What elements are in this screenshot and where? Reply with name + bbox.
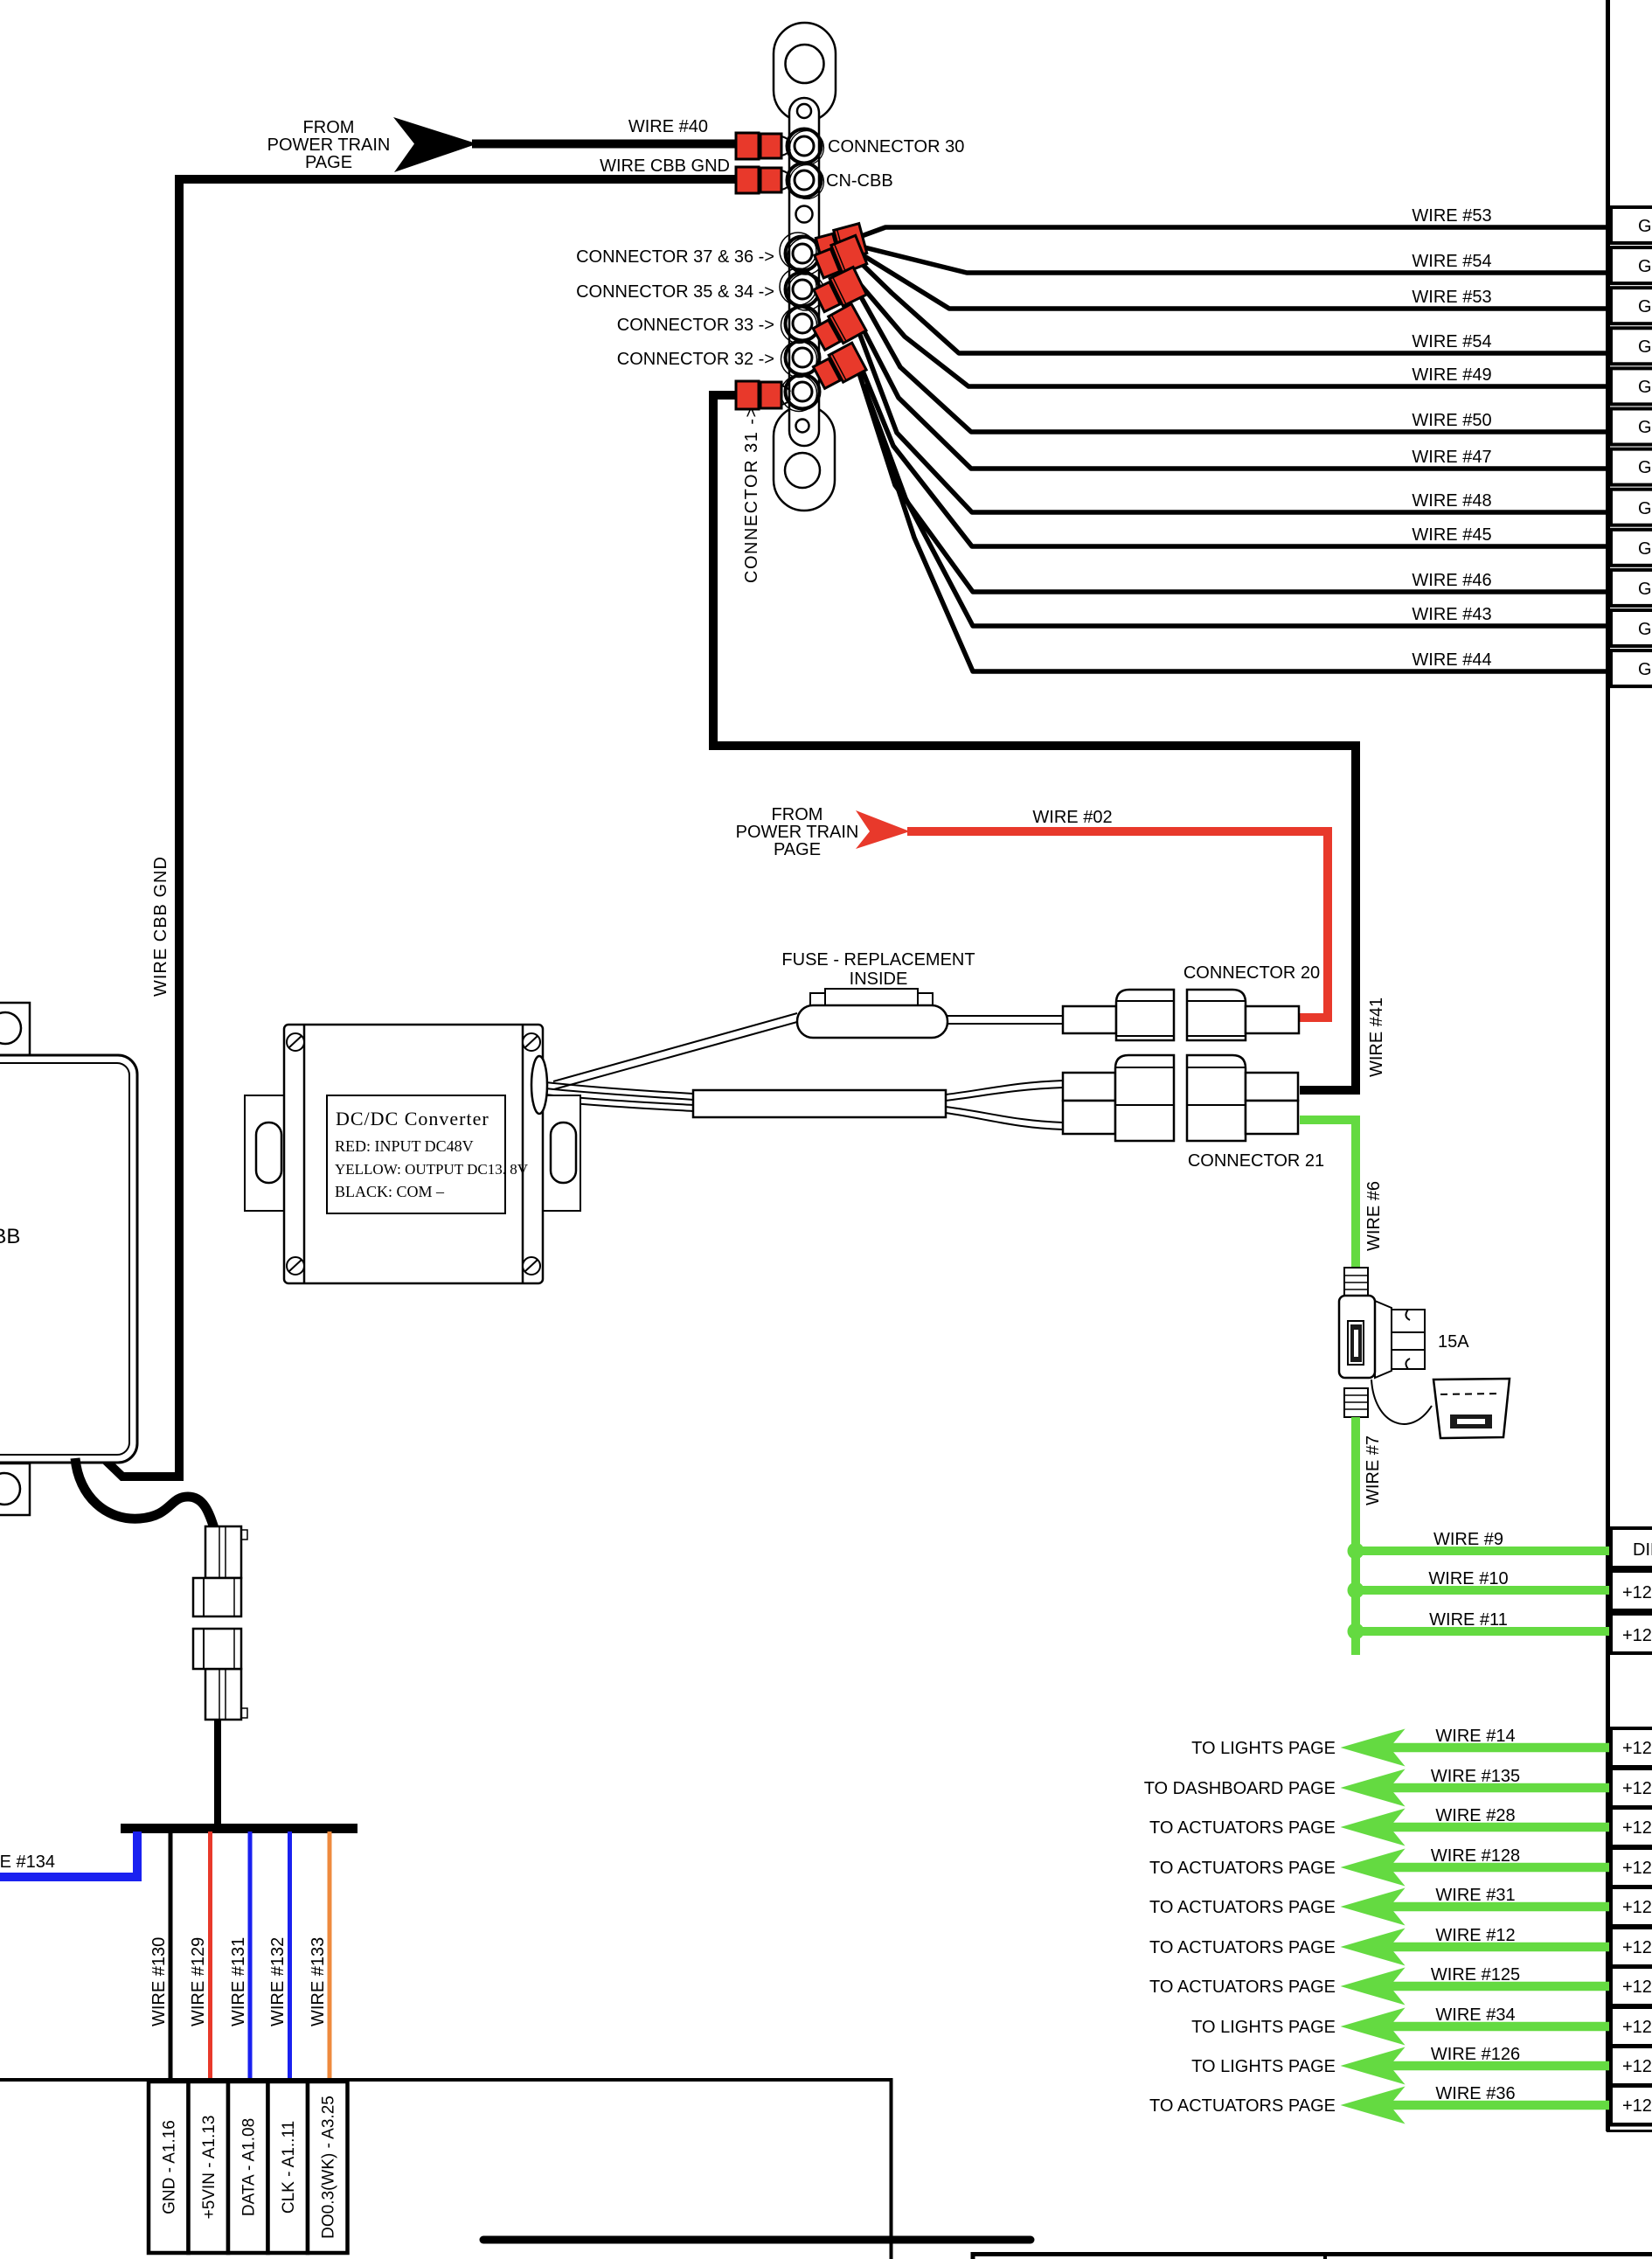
svg-text:WIRE #128: WIRE #128	[1431, 1846, 1520, 1866]
svg-text:CONNECTOR 30: CONNECTOR 30	[828, 137, 964, 156]
right component column line	[1606, 0, 1610, 2131]
pin boxes for the 10 green wires	[1611, 1728, 1652, 2124]
svg-text:FROM: FROM	[303, 118, 355, 137]
svg-text:GN: GN	[1638, 418, 1652, 437]
svg-text:WIRE #6: WIRE #6	[1364, 1181, 1384, 1251]
fuse holder cap tether	[1371, 1380, 1432, 1424]
svg-text:CN-CBB: CN-CBB	[826, 171, 893, 191]
svg-text:WIRE #46: WIRE #46	[1412, 571, 1491, 590]
svg-text:TO DASHBOARD PAGE: TO DASHBOARD PAGE	[1144, 1779, 1336, 1798]
component box (bottom right, partially visible)	[973, 2255, 1652, 2259]
fuse holder F1 15A	[1339, 1268, 1425, 1378]
wire WIRE #6 (green)	[1300, 1120, 1356, 1269]
wire WIRE #126	[1191, 2045, 1610, 2085]
svg-text:+12V: +12V	[1622, 1938, 1652, 1957]
svg-text:WIRE #53: WIRE #53	[1412, 288, 1491, 307]
svg-text:CLK - A1..11: CLK - A1..11	[280, 2121, 298, 2214]
off-page arrow (black, from power train)	[393, 117, 477, 172]
wire WIRE #135	[1144, 1767, 1610, 1807]
svg-text:WIRE #130: WIRE #130	[149, 1937, 169, 2026]
wires from busbar to GND boxes (12 wires)	[858, 227, 1610, 671]
svg-text:GN: GN	[1638, 337, 1652, 357]
wire WIRE #54	[861, 247, 1610, 273]
svg-text:GN: GN	[1638, 499, 1652, 518]
svg-text:+5VIN - A1.13: +5VIN - A1.13	[200, 2116, 219, 2220]
svg-text:GN: GN	[1638, 620, 1652, 639]
svg-text:TO ACTUATORS PAGE: TO ACTUATORS PAGE	[1149, 2096, 1336, 2116]
svg-text:+12V: +12V	[1622, 1977, 1652, 1997]
wire WIRE #44	[867, 395, 1610, 671]
svg-text:PAGE: PAGE	[774, 840, 821, 859]
wire WIRE #02	[907, 831, 1328, 1018]
svg-text:+12V: +12V	[1622, 2018, 1652, 2037]
fuse (inline, replacement inside)	[797, 989, 947, 1038]
wire WIRE #50	[859, 294, 1610, 432]
svg-text:GN: GN	[1638, 217, 1652, 236]
12 GND pin boxes on right component	[1611, 207, 1652, 686]
svg-text:WIRE #54: WIRE #54	[1412, 332, 1491, 351]
svg-text:+12V: +12V	[1622, 1898, 1652, 1917]
wire CONNECTOR 31 to WIRE #41 routing	[713, 395, 1356, 1090]
svg-text:TO ACTUATORS PAGE: TO ACTUATORS PAGE	[1149, 1898, 1336, 1917]
wire fuse to connector 20 pin	[947, 1016, 1063, 1024]
svg-text:INSIDE: INSIDE	[850, 970, 908, 989]
svg-text:WIRE CBB GND: WIRE CBB GND	[600, 156, 730, 176]
bus line (bottom, thin)	[0, 2080, 892, 2259]
svg-text:CBB: CBB	[0, 1225, 20, 1248]
ring terminal CONNECTOR 37 & 36	[780, 233, 824, 275]
wire WIRE #133 (orange)	[328, 1832, 332, 2082]
svg-text:WIRE #41: WIRE #41	[1367, 997, 1386, 1077]
svg-text:BLACK: COM –: BLACK: COM –	[335, 1183, 445, 1200]
ring terminal CN-CBB	[788, 163, 824, 199]
wire WIRE #31	[1149, 1886, 1610, 1926]
svg-text:15A: 15A	[1438, 1332, 1469, 1352]
svg-text:WIRE #31: WIRE #31	[1435, 1886, 1515, 1905]
wire WIRE #49	[859, 283, 1610, 386]
svg-text:YELLOW: OUTPUT DC13. 8V: YELLOW: OUTPUT DC13. 8V	[335, 1161, 529, 1178]
svg-text:GN: GN	[1638, 539, 1652, 559]
svg-text:WIRE #48: WIRE #48	[1412, 491, 1491, 511]
fuse holder cap	[1433, 1379, 1510, 1438]
svg-text:GN: GN	[1638, 458, 1652, 477]
wire inline connector to junction bar	[214, 1719, 221, 1824]
svg-text:WIRE #53: WIRE #53	[1412, 206, 1491, 226]
wire WIRE #134 (blue)	[0, 1832, 137, 1877]
svg-text:CONNECTOR 32 ->: CONNECTOR 32 ->	[617, 350, 774, 369]
component CBB (left, partially visible)	[0, 1003, 137, 1515]
crimp terminal on WIRE CBB GND	[736, 167, 790, 193]
connector 20	[1063, 990, 1299, 1040]
wire WIRE #14	[1191, 1727, 1610, 1767]
svg-text:WIRE CBB GND: WIRE CBB GND	[151, 856, 170, 997]
svg-text:CONNECTOR 31 ->: CONNECTOR 31 ->	[742, 406, 761, 583]
svg-text:WIRE #134: WIRE #134	[0, 1852, 55, 1872]
svg-text:+12V: +12V	[1622, 1626, 1652, 1645]
svg-text:WIRE #54: WIRE #54	[1412, 252, 1491, 271]
svg-text:+12V: +12V	[1622, 1779, 1652, 1798]
svg-text:DIM: DIM	[1633, 1540, 1652, 1560]
svg-text:TO LIGHTS PAGE: TO LIGHTS PAGE	[1191, 2018, 1336, 2037]
svg-text:WIRE #02: WIRE #02	[1032, 808, 1112, 827]
svg-text:WIRE #49: WIRE #49	[1412, 365, 1491, 385]
wire WIRE #10 (green)	[1356, 1586, 1610, 1595]
labels for the 12 wires	[1412, 206, 1491, 670]
wire WIRE #46	[858, 371, 1610, 592]
wire WIRE #129 (red)	[208, 1832, 212, 2082]
junction bar (splice)	[121, 1824, 357, 1833]
wire WIRE #48	[858, 330, 1610, 512]
svg-text:TO LIGHTS PAGE: TO LIGHTS PAGE	[1191, 1739, 1336, 1758]
svg-text:WIRE #10: WIRE #10	[1428, 1569, 1508, 1588]
svg-text:CONNECTOR 35 & 34 ->: CONNECTOR 35 & 34 ->	[576, 282, 774, 302]
wire WIRE #53 (b)	[860, 254, 1610, 309]
svg-text:RED: INPUT DC48V: RED: INPUT DC48V	[335, 1137, 474, 1155]
svg-text:WIRE #126: WIRE #126	[1431, 2045, 1520, 2064]
ring terminal CONNECTOR 35 & 34	[780, 268, 824, 310]
crimp terminal on WIRE #40	[736, 133, 790, 159]
wire WIRE #45	[858, 360, 1610, 546]
busbar (ground bus)	[774, 23, 836, 511]
terminal box GND - A1.16	[149, 2082, 348, 2253]
off-page arrow (red, from power train)	[856, 810, 910, 849]
svg-text:POWER TRAIN: POWER TRAIN	[736, 823, 859, 842]
svg-text:WIRE #14: WIRE #14	[1435, 1727, 1515, 1746]
svg-text:+12V: +12V	[1622, 1739, 1652, 1758]
junction (green dot)	[1348, 1623, 1364, 1640]
wire WIRE #12	[1149, 1926, 1610, 1966]
svg-text:GN: GN	[1638, 297, 1652, 316]
svg-text:WIRE #7: WIRE #7	[1364, 1435, 1383, 1505]
svg-text:CONNECTOR 21: CONNECTOR 21	[1188, 1151, 1324, 1171]
inline connector (CBB branch) top half	[193, 1526, 247, 1616]
svg-text:WIRE #12: WIRE #12	[1435, 1926, 1515, 1945]
svg-text:WIRE #50: WIRE #50	[1412, 411, 1491, 430]
wire WIRE #47	[858, 320, 1610, 469]
ring terminal CONNECTOR 30	[788, 129, 824, 165]
ring terminal CONNECTOR 32	[781, 341, 820, 378]
wire WIRE #28	[1149, 1806, 1610, 1846]
wire WIRE #34	[1191, 2005, 1610, 2046]
wire CBB harness to inline connector	[75, 1458, 214, 1528]
svg-text:TO ACTUATORS PAGE: TO ACTUATORS PAGE	[1149, 1818, 1336, 1838]
wire WIRE #125	[1149, 1965, 1610, 2005]
wire WIRE #128	[1149, 1846, 1610, 1887]
crimp terminal CONNECTOR 31	[736, 381, 790, 409]
wire WIRE #132 (blue)	[288, 1832, 292, 2082]
crimp terminal (angled, connector 37)	[815, 224, 866, 265]
svg-text:WIRE #45: WIRE #45	[1412, 525, 1491, 545]
ring terminal CONNECTOR 33	[781, 307, 820, 344]
svg-text:WIRE #11: WIRE #11	[1429, 1610, 1508, 1630]
inline connector (CBB branch) bottom half	[193, 1629, 247, 1720]
svg-text:CONNECTOR 20: CONNECTOR 20	[1183, 963, 1320, 983]
svg-text:WIRE #133: WIRE #133	[309, 1937, 328, 2026]
svg-text:CONNECTOR 33 ->: CONNECTOR 33 ->	[617, 316, 774, 335]
wire sheath (bundle)	[693, 1090, 946, 1117]
junction (green dot)	[1348, 1543, 1364, 1560]
svg-text:WIRE #132: WIRE #132	[268, 1937, 288, 2026]
svg-text:WIRE #9: WIRE #9	[1433, 1530, 1503, 1549]
label FUSE - REPLACEMENT INSIDE	[781, 950, 975, 989]
wire WIRE #36	[1149, 2084, 1610, 2124]
crimp terminal (angled, connector 36)	[813, 235, 866, 281]
svg-text:WIRE #125: WIRE #125	[1431, 1965, 1520, 1984]
svg-text:+12V: +12V	[1622, 2057, 1652, 2076]
svg-text:TO ACTUATORS PAGE: TO ACTUATORS PAGE	[1149, 1977, 1336, 1997]
wire WIRE #54 (b)	[860, 262, 1610, 353]
svg-text:WIRE #47: WIRE #47	[1412, 448, 1491, 467]
crimp terminal (angled, connector 32)	[812, 343, 866, 391]
svg-text:WIRE #44: WIRE #44	[1412, 650, 1491, 670]
node FROM POWER TRAIN PAGE (red feed label)	[736, 805, 859, 859]
svg-text:TO ACTUATORS PAGE: TO ACTUATORS PAGE	[1149, 1938, 1336, 1957]
node FROM POWER TRAIN PAGE (top label)	[267, 118, 391, 172]
svg-text:DO0.3(WK) - A3.25: DO0.3(WK) - A3.25	[320, 2096, 338, 2239]
svg-text:POWER TRAIN: POWER TRAIN	[267, 136, 391, 155]
right component bottom border	[1610, 2123, 1652, 2127]
svg-text:+12V: +12V	[1622, 1583, 1652, 1602]
svg-text:FROM: FROM	[772, 805, 823, 824]
svg-text:GN: GN	[1638, 257, 1652, 276]
wire WIRE #53	[859, 227, 1610, 237]
wire WIRE #40	[472, 140, 736, 149]
ring terminal CONNECTOR 31	[781, 375, 820, 412]
svg-text:CONNECTOR 37 & 36 ->: CONNECTOR 37 & 36 ->	[576, 247, 774, 267]
svg-text:WIRE #43: WIRE #43	[1412, 605, 1491, 624]
svg-text:WIRE #131: WIRE #131	[229, 1937, 248, 2026]
svg-text:WIRE #34: WIRE #34	[1435, 2005, 1515, 2025]
wire WIRE #11 (green)	[1356, 1627, 1610, 1636]
bus line (bottom, thick with rounded ends)	[483, 2236, 1031, 2244]
junction (green dot)	[1348, 1582, 1364, 1599]
crimp terminal (angled, connector 33)	[812, 303, 866, 352]
wire grommet to fuse	[553, 1013, 797, 1089]
svg-text:GND - A1.16: GND - A1.16	[161, 2120, 179, 2214]
wire sheath to connector 21 pins	[946, 1081, 1063, 1129]
svg-text:FUSE - REPLACEMENT: FUSE - REPLACEMENT	[781, 950, 975, 970]
DC/DC converter U1	[245, 1025, 580, 1283]
wire WIRE #7 (green)	[1351, 1417, 1360, 1655]
svg-text:TO ACTUATORS PAGE: TO ACTUATORS PAGE	[1149, 1859, 1336, 1878]
svg-text:GN: GN	[1638, 580, 1652, 599]
wire WIRE #9 (green)	[1356, 1547, 1610, 1555]
svg-text:DC/DC Converter: DC/DC Converter	[336, 1108, 489, 1129]
svg-text:WIRE #129: WIRE #129	[189, 1937, 208, 2026]
svg-text:WIRE #36: WIRE #36	[1435, 2084, 1515, 2103]
svg-text:DATA - A1.08: DATA - A1.08	[240, 2118, 259, 2216]
wire grommet to sheath	[545, 1082, 693, 1111]
wire WIRE #131 (blue)	[248, 1832, 253, 2082]
svg-text:GN: GN	[1638, 660, 1652, 679]
svg-text:PAGE: PAGE	[305, 153, 352, 172]
wire WIRE #43	[864, 385, 1610, 626]
svg-text:WIRE #40: WIRE #40	[628, 117, 708, 136]
connector 21	[1063, 1055, 1298, 1141]
svg-text:WIRE #28: WIRE #28	[1435, 1806, 1515, 1825]
svg-text:GN: GN	[1638, 378, 1652, 397]
svg-text:+12V: +12V	[1622, 2096, 1652, 2116]
wire WIRE #130 (black)	[169, 1832, 173, 2082]
wire WIRE CBB GND	[100, 179, 736, 1477]
svg-text:+12V: +12V	[1622, 1818, 1652, 1838]
crimp terminal (angled, connector 35 & 34)	[812, 267, 866, 314]
pin boxes for wires 9-11	[1611, 1528, 1652, 1653]
svg-text:+12V: +12V	[1622, 1859, 1652, 1878]
svg-text:WIRE #135: WIRE #135	[1431, 1767, 1520, 1786]
svg-text:TO LIGHTS PAGE: TO LIGHTS PAGE	[1191, 2057, 1336, 2076]
